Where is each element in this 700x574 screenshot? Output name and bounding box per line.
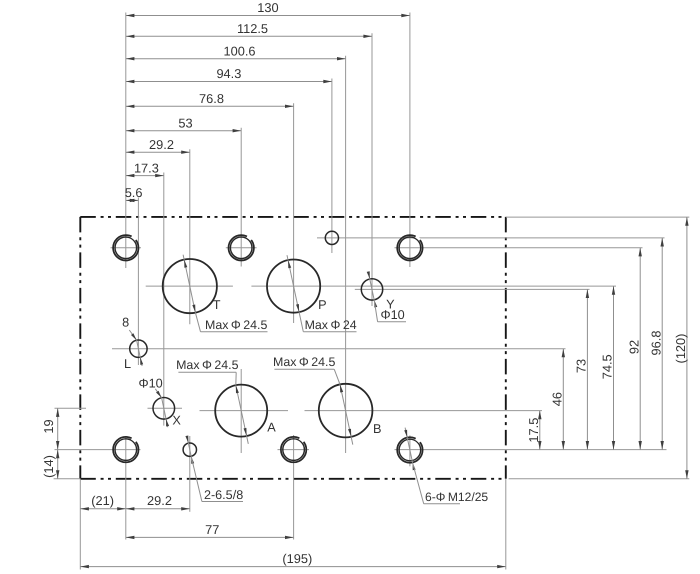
svg-text:Max Φ 24.5: Max Φ 24.5 xyxy=(176,358,238,372)
label L xyxy=(124,357,131,371)
right edge extension below plate xyxy=(505,479,507,570)
bolt hole M12 bottom-middle xyxy=(281,437,306,462)
svg-text:53: 53 xyxy=(178,115,192,130)
extension line A column lower xyxy=(240,369,242,453)
svg-text:Max Φ 24.5: Max Φ 24.5 xyxy=(273,355,335,369)
svg-text:A: A xyxy=(267,420,276,434)
svg-text:130: 130 xyxy=(257,0,278,15)
extension line X column xyxy=(163,173,165,426)
svg-text:(195): (195) xyxy=(282,551,312,566)
dimension 17.3 xyxy=(126,160,164,177)
svg-text:17.3: 17.3 xyxy=(134,160,159,175)
bottom edge extension left xyxy=(54,478,81,480)
label A xyxy=(267,420,276,434)
svg-text:94.3: 94.3 xyxy=(216,66,241,81)
centerline Y row xyxy=(355,288,590,290)
plate outline right edge xyxy=(505,217,507,479)
svg-text:B: B xyxy=(373,422,381,436)
port B hole xyxy=(319,384,373,438)
drain port L hole xyxy=(130,340,147,357)
dimension 29.2 xyxy=(126,137,190,154)
centerline top-left bolt xyxy=(111,247,142,249)
dimension 73 xyxy=(574,289,590,449)
extension line datum column xyxy=(125,13,127,269)
svg-text:Y: Y xyxy=(386,297,395,311)
bolt hole M12 top-middle xyxy=(229,235,254,260)
extension line P column lower xyxy=(293,435,295,540)
diameter 10 leader for hole X xyxy=(138,377,169,428)
dimension 46 xyxy=(550,349,566,450)
extension line L column xyxy=(137,198,139,366)
bolt hole M12 top-right xyxy=(397,235,422,260)
dimension (14) xyxy=(41,450,59,479)
svg-text:(120): (120) xyxy=(673,334,688,364)
extension line bottom 6.5 hole column xyxy=(189,436,191,512)
svg-text:(14): (14) xyxy=(41,455,56,478)
leader 2-6.5/8 for small holes xyxy=(185,436,243,502)
svg-text:112.5: 112.5 xyxy=(237,21,268,36)
dimension 76.8 xyxy=(126,91,294,108)
top 6.5 hole xyxy=(325,231,338,244)
extension X row left stub xyxy=(55,407,87,409)
centerline B row xyxy=(305,410,543,412)
svg-text:74.5: 74.5 xyxy=(600,354,615,379)
centerline bottom-right bolt vertical xyxy=(409,435,411,466)
leader Max dia 24.5 for port B xyxy=(273,355,353,445)
extension line T column xyxy=(189,149,191,324)
svg-text:2-6.5/8: 2-6.5/8 xyxy=(204,488,243,502)
bottom edge extension right xyxy=(509,478,690,480)
dimension 5.6 xyxy=(125,185,143,202)
leader Max dia 24.5 for port A xyxy=(176,358,248,444)
extension line B column xyxy=(345,56,347,453)
dimension (195) xyxy=(80,551,506,568)
svg-text:8: 8 xyxy=(122,315,129,329)
extension line top 6.5 hole column xyxy=(331,79,333,254)
svg-text:X: X xyxy=(172,414,181,428)
dimension 100.6 xyxy=(126,43,346,60)
svg-text:L: L xyxy=(124,357,131,371)
svg-text:96.8: 96.8 xyxy=(648,331,663,356)
svg-text:Max Φ 24.5: Max Φ 24.5 xyxy=(205,318,267,332)
bolt hole M12 bottom-right xyxy=(397,437,422,462)
extension line P column xyxy=(293,103,295,323)
plate outline top edge xyxy=(80,216,506,218)
svg-text:73: 73 xyxy=(574,359,589,373)
left edge extension below plate xyxy=(79,479,81,570)
diameter 10 leader for hole Y xyxy=(367,271,406,322)
label P xyxy=(318,298,326,312)
dimension 77 xyxy=(126,522,294,539)
port T hole xyxy=(163,259,217,313)
centerline X xyxy=(148,407,183,409)
centerline bottom-middle bolt xyxy=(278,449,310,451)
centerline P row xyxy=(251,285,616,287)
bolt hole M12 top-left xyxy=(113,235,138,260)
leader 6-M12/25 for bolt holes xyxy=(404,428,488,504)
dimension (21) xyxy=(80,493,126,510)
extension line right bolt column xyxy=(409,13,411,268)
label Y xyxy=(386,297,395,311)
top edge extension right xyxy=(506,216,690,218)
centerline bottom-left bolt row xyxy=(55,449,141,451)
dimension 130 xyxy=(126,0,410,17)
dimension 17.5 xyxy=(526,411,542,450)
bolt hole M12 bottom-left xyxy=(113,437,138,462)
svg-text:19: 19 xyxy=(41,419,56,433)
centerline top-middle bolt xyxy=(226,247,257,249)
svg-text:92: 92 xyxy=(626,340,641,354)
extension line datum column lower xyxy=(125,437,127,540)
dimension 92 xyxy=(626,248,642,450)
dimension 29.2 bottom xyxy=(126,493,190,510)
dimension 94.3 xyxy=(126,66,332,83)
svg-text:29.2: 29.2 xyxy=(147,493,172,508)
plate outline bottom edge xyxy=(80,478,506,480)
centerline bottom-right bolt row xyxy=(395,449,667,451)
svg-text:6-Φ M12/25: 6-Φ M12/25 xyxy=(425,490,488,504)
port A hole xyxy=(215,385,267,437)
pilot port X hole xyxy=(153,398,175,420)
centerline A xyxy=(200,410,289,412)
centerline top 6.5 hole row xyxy=(317,237,665,239)
svg-text:77: 77 xyxy=(205,522,219,537)
centerline top-right bolt row xyxy=(395,247,643,249)
leader Max dia 24.5 for port T xyxy=(183,255,267,332)
extension line A column upper xyxy=(240,128,242,267)
svg-text:29.2: 29.2 xyxy=(149,137,174,152)
svg-text:T: T xyxy=(213,298,221,312)
label B xyxy=(373,422,381,436)
plate outline left edge xyxy=(79,217,81,479)
svg-text:100.6: 100.6 xyxy=(223,43,255,58)
svg-text:17.5: 17.5 xyxy=(526,418,541,443)
diameter 8 leader for hole L xyxy=(122,315,143,366)
svg-text:Max Φ 24: Max Φ 24 xyxy=(305,318,357,332)
dimension 112.5 xyxy=(126,21,372,38)
svg-text:(21): (21) xyxy=(91,493,114,508)
svg-text:P: P xyxy=(318,298,326,312)
bottom 6.5 hole xyxy=(183,443,196,456)
svg-text:46: 46 xyxy=(550,392,565,406)
centerline L row xyxy=(112,348,566,350)
svg-text:5.6: 5.6 xyxy=(125,185,143,200)
leader Max dia 24 for port P xyxy=(287,255,357,332)
centerline T xyxy=(146,285,233,287)
dimension 53 xyxy=(126,115,241,132)
port P hole xyxy=(267,260,320,313)
dimension 96.8 xyxy=(648,238,664,450)
svg-text:Φ10: Φ10 xyxy=(138,377,162,391)
dimension 19 xyxy=(41,408,59,449)
svg-text:76.8: 76.8 xyxy=(199,91,224,106)
pilot port Y hole xyxy=(361,279,382,300)
label T xyxy=(213,298,221,312)
extension line Y column xyxy=(371,33,373,306)
dimension (120) xyxy=(673,217,689,479)
dimension 74.5 xyxy=(600,286,616,450)
label X xyxy=(172,414,181,428)
